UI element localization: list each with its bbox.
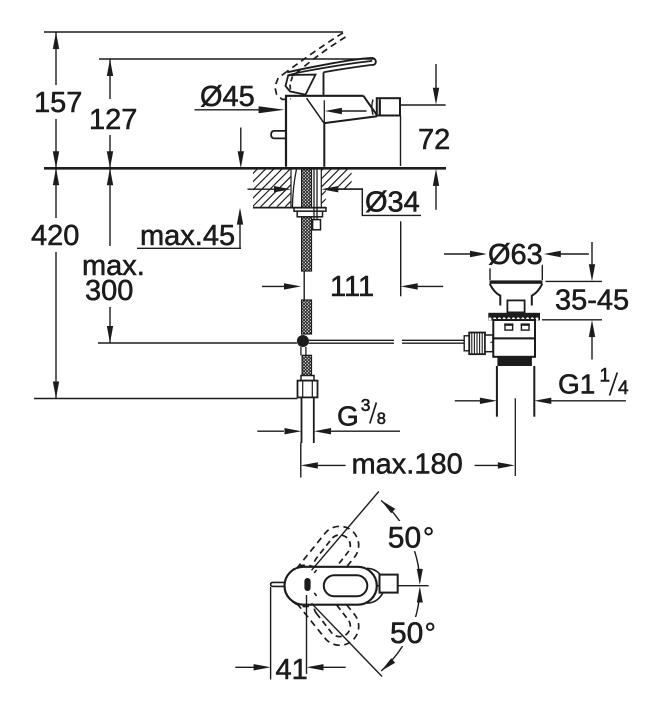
faucet mounting hole left edge — [290, 168, 292, 207]
dim max300 line — [107, 168, 113, 343]
mounting washer — [294, 208, 326, 211]
72 extension line at spout — [401, 104, 446, 106]
label G1 text — [558, 369, 595, 400]
111 extension line — [400, 221, 402, 296]
hose connector collar — [301, 376, 314, 381]
dim O63 right arrow — [544, 251, 589, 257]
braided supply hose segment A — [302, 217, 312, 271]
raised handle blade bottom edge (dashed) — [293, 37, 346, 77]
waste body slot left — [504, 324, 513, 330]
label max45 underline — [137, 247, 241, 249]
label G text — [337, 400, 359, 431]
svg-text:max.45: max.45 — [140, 220, 235, 252]
dim 72 text — [418, 124, 450, 156]
faucet mounting hole right edge — [320, 168, 322, 207]
waste compression collar — [497, 357, 532, 366]
faucet body top view (stadium) — [285, 567, 377, 605]
dim G1-1/4 left arrow — [455, 398, 497, 404]
dim O63 left arrow — [444, 251, 487, 257]
mounting nut — [297, 211, 322, 217]
dim 41 right arrow — [307, 664, 346, 670]
handle swung up slot (dashed) — [314, 535, 350, 575]
faucet body right edge — [323, 122, 325, 167]
svg-text:127: 127 — [89, 104, 137, 136]
dim 41 text — [276, 654, 308, 686]
pop-up rod middle thin section — [303, 272, 305, 300]
svg-text:72: 72 — [418, 124, 450, 156]
35-45 upper extension — [546, 280, 603, 282]
waste flange tapered sides — [490, 284, 542, 306]
ball joint of pop-up linkage — [297, 335, 309, 347]
pull rod end collar — [464, 336, 469, 351]
label O45 text — [200, 81, 255, 113]
spout height extension line — [400, 116, 402, 166]
extension line at 420 bottom — [34, 398, 298, 400]
label G3/8 fraction — [361, 395, 386, 428]
svg-text:420: 420 — [31, 220, 79, 252]
extension line at max300 bottom — [98, 342, 297, 344]
upper 50deg text — [384, 521, 434, 554]
max45 bottom arrow — [237, 208, 243, 249]
handle neck right edge — [323, 72, 325, 95]
handle lever blade bottom edge — [288, 61, 372, 75]
label O45 leader — [195, 106, 285, 113]
aerator cap — [377, 98, 400, 115]
dim 127 text — [89, 104, 137, 136]
svg-text:Ø45: Ø45 — [200, 81, 255, 113]
knurled adjusting nut — [469, 333, 485, 355]
svg-text:Ø63: Ø63 — [488, 239, 543, 271]
dim 420 text — [31, 220, 79, 252]
braided supply hose through counter — [302, 169, 312, 208]
label O34 text — [365, 187, 420, 219]
dim 72 lower arrow — [433, 169, 439, 210]
waste boss tab — [507, 300, 524, 312]
braided supply hose segment C — [302, 355, 311, 375]
svg-text:300: 300 — [85, 275, 133, 307]
handle lever blade top edge — [287, 58, 373, 72]
handle tip hook — [372, 58, 376, 65]
handle swung up 50deg (dashed outline) — [287, 526, 359, 606]
O45 right arrow — [325, 108, 367, 114]
svg-text:35-45: 35-45 — [555, 285, 629, 317]
dim 72 upper arrow — [433, 64, 439, 105]
counter cross-section hatching (right of hole) — [195, 169, 520, 207]
dim 420 line — [53, 168, 59, 398]
svg-text:50: 50 — [390, 617, 423, 650]
35-45 lower extension — [542, 319, 602, 321]
aerator end face arc — [372, 100, 373, 115]
O45 right-side extension line — [323, 100, 325, 122]
faucet body shoulder line — [307, 98, 325, 123]
raised handle base (dashed) — [275, 72, 291, 100]
clevis bracket — [485, 335, 493, 352]
braided supply hose segment B — [302, 300, 312, 334]
handle arm underside edge — [324, 65, 372, 72]
handle pivot mark (top view) — [304, 578, 310, 591]
pop-up rod knob on body left — [271, 131, 286, 139]
upper 50deg extension line — [312, 492, 379, 571]
label max45 text — [140, 220, 235, 252]
O34 left arrow — [248, 186, 292, 192]
svg-text:3: 3 — [361, 395, 371, 415]
handle slot (top view) — [324, 575, 368, 596]
waste body slot right — [521, 324, 530, 330]
label G1 fraction — [600, 366, 630, 399]
waste flange top — [490, 280, 543, 283]
dim max180 right arrow — [475, 462, 515, 468]
svg-text:Ø34: Ø34 — [365, 187, 420, 219]
hose curve inside mounting hole — [292, 169, 296, 208]
linkage below ball — [301, 347, 306, 355]
svg-text:G: G — [337, 400, 359, 431]
O34 leader step — [326, 189, 421, 216]
lower 50deg arc — [381, 587, 423, 672]
41 right extension — [306, 595, 308, 680]
waste centerline — [514, 398, 516, 476]
counter cross-section hatching (left of hole) — [195, 169, 520, 207]
handle swung down slot (dashed) — [314, 596, 350, 636]
serrated clamp ring — [488, 313, 543, 321]
waste upper body — [493, 320, 535, 338]
dim 127 line — [107, 59, 113, 168]
braided-hose cross pattern def — [0, 0, 1, 1]
O34 right arrow — [321, 186, 362, 192]
dim G1-1/4 right arrow — [534, 398, 626, 404]
datum line: top of handle rest (127 ref) — [99, 58, 375, 60]
horizontal pull rod right part — [402, 340, 464, 343]
spout end slant face — [363, 96, 377, 116]
upper 50deg arc — [381, 500, 423, 585]
spout sleeve arc (top view) — [367, 568, 384, 603]
dim 35-45 text — [555, 285, 629, 317]
pull rod tip (top view) — [271, 582, 285, 586]
waste lower body — [493, 338, 535, 356]
clevis pin — [490, 340, 501, 345]
dim max180 text — [352, 449, 463, 481]
svg-text:G1: G1 — [558, 369, 595, 400]
dim 157 line — [53, 32, 59, 168]
handle pivot knuckle — [286, 75, 316, 95]
label O63 text — [488, 239, 543, 271]
svg-text:1: 1 — [600, 366, 611, 387]
lower 50deg extension line — [312, 603, 383, 676]
svg-text:41: 41 — [276, 654, 308, 686]
svg-text:4: 4 — [618, 378, 629, 399]
aerator square (top view) — [380, 575, 398, 593]
dim 41 left arrow — [235, 664, 270, 670]
dim G3/8 left arrow — [257, 428, 301, 434]
41 left extension — [270, 587, 272, 680]
svg-text:max.180: max.180 — [352, 449, 463, 481]
faucet body left edge — [285, 96, 287, 167]
countertop surface line — [44, 167, 446, 170]
counter cross-section bottom line — [253, 207, 326, 209]
dim 35-45 lower arrow — [589, 320, 595, 360]
supply pipe G3/8 — [302, 397, 314, 443]
handle swung down 50deg (dashed outline) — [287, 565, 359, 645]
O63 extension lines — [490, 247, 542, 281]
max180 left extension — [300, 443, 302, 478]
dim G3/8 right arrow — [314, 428, 400, 434]
max45 top arrow — [238, 128, 244, 169]
svg-text:111: 111 — [330, 271, 374, 303]
dim 111 left arrow — [262, 283, 301, 289]
faucet body top edge — [285, 95, 363, 97]
raised handle blade top edge (dashed) — [287, 33, 343, 72]
residual dash marks inside body — [314, 570, 316, 596]
waste tailpipe — [497, 366, 534, 417]
pop-up rod guide fitting — [313, 220, 321, 230]
centerline extension right — [377, 585, 429, 587]
dim 157 text — [34, 87, 82, 119]
dim 111 right arrow — [401, 283, 443, 289]
datum line: top of handle raised (157 ref) — [44, 31, 343, 33]
dim max180 left arrow — [301, 462, 346, 468]
svg-text:50: 50 — [388, 521, 421, 554]
dim 111 text — [330, 271, 374, 303]
svg-text:8: 8 — [377, 410, 386, 428]
G3/8 hex connection nut — [298, 381, 318, 398]
lower 50deg text — [386, 617, 436, 650]
spout underside edge — [324, 116, 377, 123]
dim 35-45 upper arrow — [589, 242, 595, 281]
pop-up rod upper section — [314, 168, 317, 220]
horizontal pull rod left part — [309, 340, 394, 343]
dim max300 text — [82, 250, 145, 307]
svg-text:157: 157 — [34, 87, 82, 119]
raised handle base inner edge (dashed) — [290, 77, 293, 93]
